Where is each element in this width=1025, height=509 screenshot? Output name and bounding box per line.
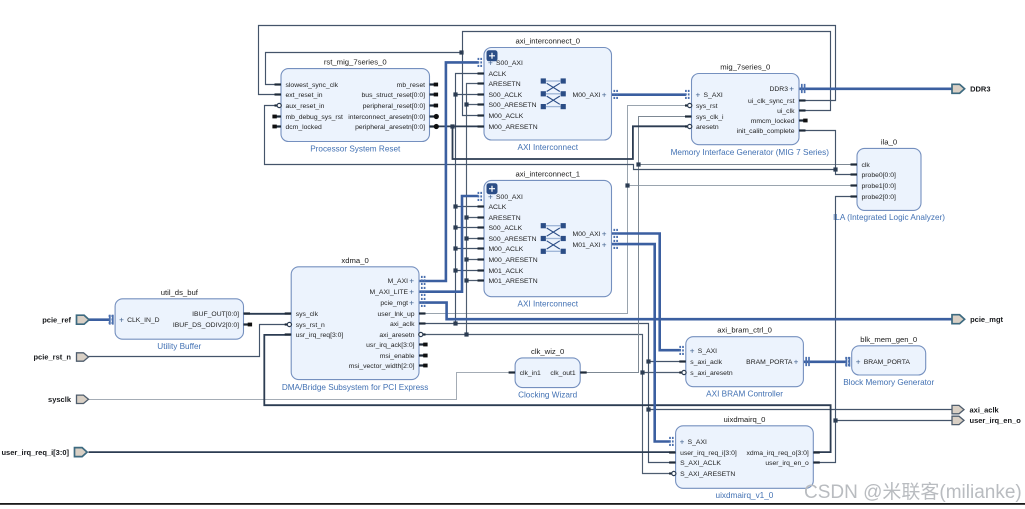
pin xdma_0.M_AXI bbox=[388, 276, 425, 286]
svg-text:axi_interconnect_1: axi_interconnect_1 bbox=[515, 169, 580, 178]
svg-text:M00_ARESETN: M00_ARESETN bbox=[489, 257, 538, 264]
svg-text:BRAM_PORTA: BRAM_PORTA bbox=[864, 359, 911, 366]
bottom rule bbox=[0, 503, 1025, 505]
junction axi_aresetn M01_ARESETN int1 bbox=[464, 278, 468, 282]
pin xdma_0.M_AXI_LITE bbox=[369, 287, 424, 297]
wire axi_aresetn branch to interconnect_1 M01_ARESETN bbox=[467, 280, 485, 282]
svg-text:+: + bbox=[680, 438, 685, 447]
svg-text:S00_ACLK: S00_ACLK bbox=[489, 92, 523, 99]
wire axi_aresetn branch to interconnect_1 M00_ARESETN bbox=[467, 259, 485, 261]
pin axi_interconnect_1.ACLK bbox=[478, 204, 507, 211]
pin axi_interconnect_0.S00_ACLK bbox=[478, 92, 523, 99]
wire axi_aresetn west trunk to interconnect resets bbox=[467, 84, 485, 335]
pin mig_7series_0.ui_clk bbox=[777, 108, 805, 115]
pin xdma_0.user_lnk_up bbox=[377, 311, 425, 318]
connector blk_mem BRAM_PORTA solid bars bbox=[846, 357, 849, 367]
pin axi_interconnect_1.M00_ACLK bbox=[478, 246, 524, 253]
svg-text:ILA (Integrated Logic Analyzer: ILA (Integrated Logic Analyzer) bbox=[833, 213, 945, 222]
svg-text:clk_in1: clk_in1 bbox=[520, 370, 541, 377]
svg-text:M00_ACLK: M00_ACLK bbox=[489, 113, 524, 120]
wire init_calib_complete net (mig to ila probe0) bbox=[799, 131, 857, 175]
svg-text:rst_mig_7series_0: rst_mig_7series_0 bbox=[324, 58, 387, 67]
wire IBUF_OUT net (util_ds_buf to xdma sys_clk) bbox=[244, 313, 292, 315]
svg-text:IBUF_DS_ODIV2[0:0]: IBUF_DS_ODIV2[0:0] bbox=[173, 322, 239, 329]
svg-text:M01_ACLK: M01_ACLK bbox=[489, 268, 524, 275]
svg-text:DDR3: DDR3 bbox=[769, 86, 788, 93]
pin xdma_0.msi_vector_width[2:0] bbox=[349, 363, 428, 370]
pin xdma_0.sys_clk bbox=[285, 311, 319, 318]
svg-text:Memory Interface Generator (MI: Memory Interface Generator (MIG 7 Series… bbox=[671, 148, 830, 157]
wire axi_aresetn branch to interconnect_1 ARESETN bbox=[467, 217, 485, 219]
svg-text:+: + bbox=[409, 277, 414, 286]
pin axi_interconnect_0.S00_AXI bbox=[478, 58, 523, 68]
svg-text:M00_AXI: M00_AXI bbox=[573, 92, 601, 99]
svg-text:+: + bbox=[602, 230, 607, 239]
wire init_calib_complete branch to rst aux_reset_in bbox=[265, 106, 836, 170]
svg-text:DDR3: DDR3 bbox=[970, 85, 990, 94]
wire user_lnk_up branch to ila probe1 bbox=[628, 185, 857, 187]
svg-text:IBUF_OUT[0:0]: IBUF_OUT[0:0] bbox=[192, 311, 239, 318]
svg-text:blk_mem_gen_0: blk_mem_gen_0 bbox=[860, 335, 917, 344]
svg-text:user_irq_req_i[3:0]: user_irq_req_i[3:0] bbox=[680, 450, 737, 457]
svg-text:user_irq_en_o: user_irq_en_o bbox=[970, 416, 1022, 425]
pin rst_mig_7series_0.peripheral_reset[0:0] bbox=[363, 103, 438, 110]
svg-text:Utility Buffer: Utility Buffer bbox=[157, 342, 201, 351]
pin xdma_0.pcie_mgt bbox=[380, 298, 424, 308]
svg-text:aresetn: aresetn bbox=[696, 124, 719, 131]
wire sysclk net (port to clk_wiz clk_in1) bbox=[89, 373, 516, 400]
pin rst_mig_7series_0.dcm_locked bbox=[272, 124, 322, 131]
svg-text:+: + bbox=[409, 299, 414, 308]
svg-text:+: + bbox=[488, 59, 493, 68]
wire peripheral_aresetn net (rst to interconnect_0 M00_ARESETN) bbox=[430, 125, 485, 127]
svg-text:ACLK: ACLK bbox=[489, 71, 507, 78]
wire clk_out1 branch to ila clk bbox=[639, 164, 857, 166]
svg-text:S_AXI: S_AXI bbox=[698, 348, 717, 355]
svg-text:s_axi_aresetn: s_axi_aresetn bbox=[690, 370, 733, 377]
wire axi_aclk net (xdma axi_aclk east trunk) bbox=[419, 324, 676, 463]
pin uixdmairq_0.S_AXI_ACLK bbox=[669, 460, 721, 467]
pin mig_7series_0.aresetn bbox=[685, 124, 719, 131]
pin rst_mig_7series_0.ext_reset_in bbox=[275, 92, 323, 99]
svg-text:pcie_mgt: pcie_mgt bbox=[380, 300, 408, 307]
wire pcie_rst_n net (port to xdma sys_rst_n) bbox=[89, 325, 292, 357]
pin mig_7series_0.sys_clk_i bbox=[685, 114, 724, 121]
svg-text:BRAM_PORTA: BRAM_PORTA bbox=[746, 359, 793, 366]
pin rst_mig_7series_0.interconnect_aresetn[0:0] bbox=[348, 114, 439, 121]
svg-text:aux_reset_in: aux_reset_in bbox=[286, 103, 325, 110]
junction axi_aresetn M00_ARESETN int1 bbox=[464, 257, 468, 261]
svg-text:uixdmairq_v1_0: uixdmairq_v1_0 bbox=[716, 491, 774, 500]
pin rst_mig_7series_0.mb_debug_sys_rst bbox=[272, 114, 343, 121]
pin rst_mig_7series_0.slowest_sync_clk bbox=[275, 82, 339, 89]
junction ila probe1 branch bbox=[625, 183, 629, 187]
svg-text:+: + bbox=[856, 358, 861, 367]
svg-text:pcie_ref: pcie_ref bbox=[42, 315, 71, 324]
svg-text:mb_reset: mb_reset bbox=[397, 82, 425, 89]
svg-text:user_irq_req_i[3:0]: user_irq_req_i[3:0] bbox=[1, 448, 69, 457]
svg-text:axi_aclk: axi_aclk bbox=[390, 321, 415, 328]
wire axi_aclk branch to interconnect_1 S00_ACLK bbox=[456, 227, 485, 229]
svg-text:ARESETN: ARESETN bbox=[489, 81, 521, 88]
svg-text:msi_enable: msi_enable bbox=[380, 353, 415, 360]
wire ui_clk net (mig ui_clk to slowest_sync_clk and interconnect_0 M00_ACLK) bbox=[463, 32, 831, 116]
svg-text:S00_ARESETN: S00_ARESETN bbox=[489, 236, 537, 243]
wire axi_aresetn branch to bram s_axi_aresetn bbox=[643, 372, 686, 374]
junction axi_aclk ACLK int1 bbox=[453, 204, 457, 208]
svg-text:probe2[0:0]: probe2[0:0] bbox=[862, 194, 897, 201]
svg-text:ACLK: ACLK bbox=[489, 204, 507, 211]
svg-text:M_AXI_LITE: M_AXI_LITE bbox=[369, 289, 408, 296]
wire ui_clk branch to rst slowest_sync_clk bbox=[266, 53, 463, 85]
pin axi_interconnect_1.M01_ARESETN bbox=[478, 278, 538, 285]
svg-text:sys_rst_n: sys_rst_n bbox=[296, 322, 325, 329]
svg-text:ARESETN: ARESETN bbox=[489, 215, 521, 222]
wire M_AXI bus (xdma to interconnect_0 S00_AXI) bbox=[419, 62, 479, 281]
svg-text:M00_ACLK: M00_ACLK bbox=[489, 246, 524, 253]
pin axi_interconnect_0.M00_ARESETN bbox=[478, 124, 538, 131]
svg-text:AXI BRAM Controller: AXI BRAM Controller bbox=[706, 390, 783, 399]
pin util_ds_buf.IBUF_OUT[0:0] bbox=[192, 311, 250, 318]
svg-text:sys_rst: sys_rst bbox=[696, 103, 718, 110]
svg-text:S00_ACLK: S00_ACLK bbox=[489, 225, 523, 232]
pin axi_interconnect_1.M00_AXI bbox=[573, 229, 618, 239]
wire M01_AXI bus (interconnect_1 to uixdmairq S_AXI) bbox=[612, 244, 671, 441]
external port user_irq_en_o bbox=[952, 416, 1021, 425]
pin axi_interconnect_1.M01_AXI bbox=[573, 240, 618, 250]
wire xdma_irq_req_o net (uixdmairq to xdma usr_irq_req) bbox=[264, 335, 830, 452]
svg-text:s_axi_aclk: s_axi_aclk bbox=[690, 359, 722, 366]
svg-text:CLK_IN_D: CLK_IN_D bbox=[127, 317, 160, 324]
svg-text:xdma_0: xdma_0 bbox=[341, 256, 368, 265]
pin uixdmairq_0.S_AXI bbox=[670, 437, 707, 447]
wire axi_aclk west trunk to interconnect clocks bbox=[456, 74, 485, 324]
pin mig_7series_0.ui_clk_sync_rst bbox=[748, 98, 805, 105]
svg-text:ui_clk_sync_rst: ui_clk_sync_rst bbox=[748, 98, 795, 105]
pin ila_0.probe0[0:0] bbox=[851, 172, 897, 179]
wire pcie_ref diff clock bus (port to util_ds_buf CLK_IN_D) bbox=[89, 318, 110, 321]
pin xdma_0.usr_irq_ack[3:0] bbox=[366, 342, 427, 349]
pin axi_interconnect_1.M01_ACLK bbox=[478, 268, 524, 275]
svg-text:mig_7series_0: mig_7series_0 bbox=[720, 63, 770, 72]
svg-text:+: + bbox=[602, 91, 607, 100]
wire axi_aclk branch to external port bbox=[649, 409, 953, 411]
connector CLK_IN_D solid bars bbox=[110, 315, 113, 325]
pin xdma_0.axi_aresetn bbox=[379, 332, 425, 339]
svg-text:M01_ARESETN: M01_ARESETN bbox=[489, 278, 538, 285]
svg-text:Processor System Reset: Processor System Reset bbox=[310, 145, 401, 154]
pin axi_interconnect_0.S00_ARESETN bbox=[478, 102, 537, 109]
pin blk_mem_gen_0.BRAM_PORTA bbox=[846, 357, 910, 367]
wire user_irq_en_o branch to external port bbox=[836, 420, 953, 422]
svg-text:bus_struct_reset[0:0]: bus_struct_reset[0:0] bbox=[362, 92, 426, 99]
pin util_ds_buf.IBUF_DS_ODIV2[0:0] bbox=[173, 322, 252, 329]
pin xdma_0.axi_aclk bbox=[390, 321, 426, 328]
wire user_lnk_up net (xdma user_lnk_up to mig sys_rst) bbox=[419, 106, 692, 314]
junction ui_clk at slowest_sync_clk branch bbox=[459, 50, 463, 54]
svg-text:M00_ARESETN: M00_ARESETN bbox=[489, 124, 538, 131]
svg-text:util_ds_buf: util_ds_buf bbox=[161, 288, 199, 297]
svg-text:S_AXI: S_AXI bbox=[704, 92, 723, 99]
svg-text:peripheral_aresetn[0:0]: peripheral_aresetn[0:0] bbox=[355, 124, 425, 131]
pin xdma_0.msi_enable bbox=[380, 353, 428, 360]
wire user_irq_req_i net (port to uixdmairq) bbox=[89, 451, 676, 453]
junction axi_aclk M00_ACLK int1 bbox=[453, 246, 457, 250]
pin axi_interconnect_0.ARESETN bbox=[478, 81, 521, 88]
external port pcie_rst_n bbox=[33, 353, 88, 362]
wire axi_aclk branch to interconnect_1 M00_ACLK bbox=[456, 248, 485, 250]
svg-text:S00_ARESETN: S00_ARESETN bbox=[489, 102, 537, 109]
pin axi_interconnect_0.ACLK bbox=[478, 71, 507, 78]
svg-text:+: + bbox=[409, 288, 414, 297]
pin rst_mig_7series_0.peripheral_aresetn[0:0] bbox=[355, 124, 439, 131]
pin mig_7series_0.S_AXI bbox=[686, 90, 723, 100]
pin axi_bram_ctrl_0.S_AXI bbox=[680, 346, 717, 356]
junction axi_aclk S00_ACLK int1 bbox=[453, 225, 457, 229]
svg-text:sys_clk_i: sys_clk_i bbox=[696, 114, 724, 121]
svg-text:Clocking Wizard: Clocking Wizard bbox=[518, 391, 578, 400]
junction axi_aclk trunk bbox=[453, 321, 457, 325]
svg-text:slowest_sync_clk: slowest_sync_clk bbox=[286, 82, 339, 89]
svg-text:+: + bbox=[690, 347, 695, 356]
wire pcie_mgt bus (xdma to external port) bbox=[419, 303, 952, 320]
svg-text:user_lnk_up: user_lnk_up bbox=[377, 311, 414, 318]
svg-text:S_AXI: S_AXI bbox=[688, 439, 707, 446]
svg-text:+: + bbox=[602, 241, 607, 250]
svg-text:mmcm_locked: mmcm_locked bbox=[751, 118, 795, 125]
wire axi_aclk branch to interconnect_1 ACLK bbox=[456, 206, 485, 208]
pin xdma_0.sys_rst_n bbox=[285, 322, 325, 329]
svg-text:mb_debug_sys_rst: mb_debug_sys_rst bbox=[286, 114, 344, 121]
svg-text:+: + bbox=[696, 91, 701, 100]
pin uixdmairq_0.xdma_irq_req_o[3:0] bbox=[746, 450, 819, 457]
pin axi_interconnect_1.S00_ACLK bbox=[478, 225, 523, 232]
pin axi_interconnect_0.M00_AXI bbox=[573, 90, 618, 100]
external port pcie_ref bbox=[42, 315, 89, 324]
svg-text:init_calib_complete: init_calib_complete bbox=[737, 128, 795, 135]
svg-text:S00_AXI: S00_AXI bbox=[496, 194, 523, 201]
svg-text:user_irq_en_o: user_irq_en_o bbox=[765, 460, 809, 467]
svg-text:M00_AXI: M00_AXI bbox=[573, 231, 601, 238]
pin axi_interconnect_1.M00_ARESETN bbox=[478, 257, 538, 264]
svg-text:S00_AXI: S00_AXI bbox=[496, 60, 523, 67]
wire axi_aresetn branch to interconnect_0 S00_ARESETN bbox=[467, 104, 485, 106]
svg-text:CSDN @米联客(milianke): CSDN @米联客(milianke) bbox=[804, 481, 1022, 503]
pin ila_0.probe2[0:0] bbox=[851, 194, 897, 201]
svg-text:peripheral_reset[0:0]: peripheral_reset[0:0] bbox=[363, 103, 425, 110]
pin axi_interconnect_1.S00_ARESETN bbox=[478, 236, 537, 243]
junction axi_aclk M01_ACLK int1 bbox=[453, 268, 457, 272]
svg-text:ila_0: ila_0 bbox=[881, 137, 897, 146]
pin rst_mig_7series_0.bus_struct_reset[0:0] bbox=[362, 92, 439, 99]
pin mig_7series_0.init_calib_complete bbox=[737, 128, 806, 135]
pin axi_interconnect_1.S00_AXI bbox=[478, 192, 523, 202]
svg-text:uixdmairq_0: uixdmairq_0 bbox=[724, 415, 766, 424]
svg-text:Block Memory Generator: Block Memory Generator bbox=[843, 378, 934, 387]
svg-text:msi_vector_width[2:0]: msi_vector_width[2:0] bbox=[349, 363, 415, 370]
pin axi_interconnect_1.ARESETN bbox=[478, 215, 521, 222]
svg-text:clk_out1: clk_out1 bbox=[550, 370, 576, 377]
junction axi_aclk port branch bbox=[646, 407, 650, 411]
pin clk_wiz_0.clk_out1 bbox=[550, 370, 586, 377]
svg-text:axi_aclk: axi_aclk bbox=[970, 405, 1000, 414]
junction user_irq_en_o port branch bbox=[833, 418, 837, 422]
svg-text:probe0[0:0]: probe0[0:0] bbox=[862, 172, 897, 179]
svg-text:axi_bram_ctrl_0: axi_bram_ctrl_0 bbox=[717, 326, 772, 335]
junction axi_aclk S00_ACLK int0 bbox=[453, 92, 457, 96]
pin rst_mig_7series_0.mb_reset bbox=[397, 82, 438, 89]
pin ila_0.probe1[0:0] bbox=[851, 183, 897, 190]
junction ila probe0 branch bbox=[833, 167, 837, 171]
junction axi_aresetn S00_ARESETN int0 bbox=[464, 102, 468, 106]
svg-text:usr_irq_req[3:0]: usr_irq_req[3:0] bbox=[296, 332, 344, 339]
wire M00_AXI bus (interconnect_0 to mig S_AXI) bbox=[612, 93, 687, 96]
pin ila_0.clk bbox=[851, 162, 871, 169]
svg-text:interconnect_aresetn[0:0]: interconnect_aresetn[0:0] bbox=[348, 114, 425, 121]
svg-text:AXI Interconnect: AXI Interconnect bbox=[517, 300, 578, 309]
pin uixdmairq_0.user_irq_en_o bbox=[765, 460, 819, 467]
svg-text:axi_aresetn: axi_aresetn bbox=[379, 332, 414, 339]
pin mig_7series_0.DDR3 bbox=[769, 84, 804, 94]
pin util_ds_buf.CLK_IN_D bbox=[110, 315, 160, 325]
junction axi_aresetn ARESETN int1 bbox=[464, 215, 468, 219]
external port DDR3 bbox=[952, 84, 991, 93]
pin uixdmairq_0.S_AXI_ARESETN bbox=[669, 471, 735, 478]
svg-text:clk_wiz_0: clk_wiz_0 bbox=[531, 347, 564, 356]
wire axi_aresetn net (xdma axi_aresetn east trunk) bbox=[419, 335, 676, 474]
wire axi_aresetn branch to interconnect_1 S00_ARESETN bbox=[467, 238, 485, 240]
external port pcie_mgt bbox=[952, 315, 1004, 324]
svg-text:+: + bbox=[794, 358, 799, 367]
wire peripheral_aresetn branch to mig aresetn bbox=[453, 126, 692, 159]
svg-text:S_AXI_ARESETN: S_AXI_ARESETN bbox=[680, 471, 735, 478]
svg-text:clk: clk bbox=[862, 162, 871, 169]
external port user_irq_req_i[3:0] bbox=[1, 448, 87, 457]
pin xdma_0.usr_irq_req[3:0] bbox=[285, 332, 344, 339]
pin clk_wiz_0.clk_in1 bbox=[509, 370, 541, 377]
junction bram s_axi_aclk branch bbox=[646, 359, 650, 363]
svg-text:DMA/Bridge Subsystem for PCI E: DMA/Bridge Subsystem for PCI Express bbox=[282, 383, 429, 392]
wire axi_aclk branch to bram s_axi_aclk bbox=[649, 361, 686, 363]
pin mig_7series_0.sys_rst bbox=[685, 103, 718, 110]
svg-text:usr_irq_ack[3:0]: usr_irq_ack[3:0] bbox=[366, 342, 414, 349]
junction peripheral_aresetn branch bbox=[450, 124, 454, 128]
svg-text:+: + bbox=[488, 193, 493, 202]
svg-text:sys_clk: sys_clk bbox=[296, 311, 319, 318]
svg-text:xdma_irq_req_o[3:0]: xdma_irq_req_o[3:0] bbox=[746, 450, 808, 457]
svg-text:+: + bbox=[789, 85, 794, 94]
junction axi_aresetn trunk bbox=[464, 332, 468, 336]
pin axi_bram_ctrl_0.BRAM_PORTA bbox=[746, 357, 809, 367]
svg-text:ui_clk: ui_clk bbox=[777, 108, 795, 115]
pin axi_interconnect_0.M00_ACLK bbox=[478, 113, 524, 120]
wire ui_clk_sync_rst net (mig ui_clk_sync_rst to rst ext_reset_in) bbox=[259, 26, 836, 101]
svg-text:pcie_rst_n: pcie_rst_n bbox=[33, 353, 71, 362]
svg-text:axi_interconnect_0: axi_interconnect_0 bbox=[515, 37, 580, 46]
pin axi_bram_ctrl_0.s_axi_aclk bbox=[679, 359, 722, 366]
svg-text:sysclk: sysclk bbox=[48, 395, 72, 404]
svg-text:AXI Interconnect: AXI Interconnect bbox=[517, 143, 578, 152]
junction axi_aresetn S00_ARESETN int1 bbox=[464, 236, 468, 240]
external port sysclk bbox=[48, 395, 88, 404]
wire DDR3 bus (mig to external port) bbox=[799, 88, 952, 91]
svg-text:ext_reset_in: ext_reset_in bbox=[286, 92, 323, 99]
svg-text:dcm_locked: dcm_locked bbox=[286, 124, 322, 131]
wire clk_out1 net (clk_wiz to mig sys_clk_i) bbox=[581, 117, 692, 373]
wire M00_AXI bus (interconnect_1 to bram S_AXI) bbox=[612, 234, 682, 351]
svg-text:S_AXI_ACLK: S_AXI_ACLK bbox=[680, 460, 721, 467]
junction ila clk branch bbox=[636, 162, 640, 166]
pin mig_7series_0.mmcm_locked bbox=[751, 118, 808, 125]
svg-text:pcie_mgt: pcie_mgt bbox=[970, 315, 1003, 324]
pin rst_mig_7series_0.aux_reset_in bbox=[275, 103, 325, 110]
svg-text:probe1[0:0]: probe1[0:0] bbox=[862, 183, 897, 190]
pin uixdmairq_0.user_irq_req_i[3:0] bbox=[669, 450, 737, 457]
pin axi_bram_ctrl_0.s_axi_aresetn bbox=[679, 370, 733, 377]
junction bram s_axi_aresetn branch bbox=[640, 370, 644, 374]
wire user_irq_en_o net (uixdmairq to ila probe2) bbox=[814, 197, 857, 463]
wire axi_aclk branch to interconnect_1 M01_ACLK bbox=[456, 270, 485, 272]
svg-text:M_AXI: M_AXI bbox=[388, 278, 409, 285]
wire axi_aclk branch to interconnect_0 S00_ACLK bbox=[456, 94, 485, 96]
wire M_AXI_LITE bus (xdma to interconnect_1 S00_AXI) bbox=[419, 196, 479, 292]
external port axi_aclk bbox=[952, 405, 1000, 414]
wire BRAM_PORTA bus (bram to blk_mem_gen) bbox=[803, 360, 846, 363]
svg-text:M01_AXI: M01_AXI bbox=[573, 242, 601, 249]
svg-text:+: + bbox=[119, 316, 124, 325]
